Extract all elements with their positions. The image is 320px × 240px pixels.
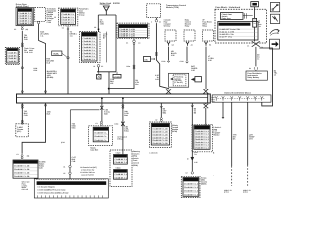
svg-text:A1: A1 — [138, 42, 140, 45]
svg-text:C1: C1 — [16, 153, 18, 156]
svg-text:(ELBW): (ELBW) — [47, 76, 54, 79]
svg-text:C8=4B BK C-L: C8=4B BK C-L — [83, 58, 96, 61]
svg-text:B+: B+ — [103, 36, 105, 39]
svg-text:Relay: Relay — [185, 24, 190, 27]
svg-text:0.35: 0.35 — [194, 161, 197, 164]
svg-text:C2=4B BK C-L 2B: C2=4B BK C-L 2B — [14, 168, 30, 171]
svg-text:Belt: Belt — [124, 114, 128, 117]
svg-text:C2=4B BK C-L: C2=4B BK C-L — [114, 176, 127, 179]
svg-text:C1=4B BK C-L: C1=4B BK C-L — [94, 132, 107, 135]
svg-text:COO #P: COO #P — [22, 188, 29, 191]
svg-text:Module (TCM): Module (TCM) — [166, 6, 179, 9]
svg-text:C305: C305 — [33, 69, 37, 72]
svg-text:C2: C2 — [63, 172, 65, 175]
svg-text:(PDM): (PDM) — [133, 164, 138, 167]
svg-text:C8: C8 — [94, 26, 96, 29]
svg-text:C2: C2 — [14, 28, 16, 31]
svg-text:Clean: Clean — [116, 167, 121, 170]
svg-text:C4=4B BK C-L 2B: C4=4B BK C-L 2B — [14, 175, 30, 178]
svg-text:1-Ch-B-Ch: 1-Ch-B-Ch — [149, 152, 157, 155]
svg-text:M Blue: M Blue — [117, 137, 123, 140]
svg-text:C-1 Dia (Am Wagon): C-1 Dia (Am Wagon) — [37, 186, 55, 189]
svg-text:C4=4B BK: C4=4B BK — [8, 60, 18, 63]
svg-text:1150: 1150 — [100, 23, 104, 26]
svg-text:C2=4B BK C-L: C2=4B BK C-L — [94, 135, 107, 138]
svg-text:C7=4B BK C-L 2: C7=4B BK C-L 2 — [195, 146, 209, 149]
svg-text:C2=4B BK C-L: C2=4B BK C-L — [114, 161, 127, 164]
svg-text:5M2: 5M2 — [163, 112, 167, 115]
svg-text:C1: C1 — [95, 122, 97, 125]
svg-text:C4=4B BK C-L 2: C4=4B BK C-L 2 — [184, 193, 198, 196]
svg-text:C4: C4 — [62, 27, 64, 30]
svg-text:A1: A1 — [191, 44, 193, 47]
svg-text:C2=4B BK C-L 2: C2=4B BK C-L 2 — [184, 186, 198, 189]
svg-text:L35: L35 — [110, 82, 113, 85]
svg-text:C4=4B BK C-L 2B: C4=4B BK C-L 2B — [119, 35, 135, 38]
svg-text:C100: C100 — [161, 60, 165, 63]
svg-text:C4=4B BK C-L: C4=4B BK C-L — [62, 22, 75, 25]
svg-text:C2: C2 — [101, 65, 103, 68]
svg-text:Data Link Connector (DLC): Data Link Connector (DLC) — [224, 92, 250, 95]
svg-text:C1: C1 — [126, 42, 128, 45]
svg-text:C3=4B BK C-L 2B: C3=4B BK C-L 2B — [14, 172, 30, 175]
svg-text:C1=4B BK C-L: C1=4B BK C-L — [114, 173, 127, 176]
svg-text:Fuse Block - Underhood: Fuse Block - Underhood — [215, 6, 240, 9]
svg-text:30 2.0 FF CH-L: 30 2.0 FF CH-L — [219, 36, 233, 39]
svg-text:ALDL: ALDL — [53, 52, 59, 55]
svg-text:C2: C2 — [185, 172, 187, 175]
svg-text:1.1: 1.1 — [257, 58, 260, 61]
svg-text:C6=4B BK C-L 2B: C6=4B BK C-L 2B — [152, 142, 168, 145]
svg-text:0.35: 0.35 — [171, 54, 175, 57]
svg-text:Window: Window — [164, 24, 171, 27]
svg-text:C5=4B BK C-L: C5=4B BK C-L — [18, 22, 31, 25]
svg-text:C1: C1 — [63, 166, 65, 169]
svg-text:C1: C1 — [93, 65, 95, 68]
svg-text:C100: C100 — [47, 21, 51, 24]
svg-text:C40x: C40x — [126, 65, 130, 68]
svg-text:G2: G2 — [172, 44, 174, 47]
svg-text:1-08: 1-08 — [155, 78, 159, 81]
svg-text:L2n: L2n — [135, 83, 138, 86]
svg-text:Case Belt: Case Belt — [90, 149, 98, 152]
svg-text:C2: C2 — [155, 118, 157, 121]
svg-text:Group: Group — [79, 13, 85, 16]
svg-text:Belt: Belt — [104, 112, 108, 115]
svg-text:)C40: )C40 — [61, 141, 65, 144]
svg-text:(MDM): (MDM) — [201, 182, 207, 185]
svg-text:(BCM): (BCM) — [172, 130, 178, 133]
svg-text:0.35: 0.35 — [191, 69, 195, 72]
svg-text:A/C: A/C — [144, 58, 148, 61]
svg-text:0.35: 0.35 — [208, 59, 212, 62]
svg-text:C1=4B BK C-L 2: C1=4B BK C-L 2 — [184, 182, 198, 185]
svg-text:(2.0L): (2.0L) — [224, 191, 229, 194]
svg-text:C40x: C40x — [114, 122, 118, 125]
svg-text:21: 21 — [247, 45, 249, 48]
svg-text:Chart: Chart — [116, 151, 121, 154]
svg-text:(3.6L): (3.6L) — [243, 191, 248, 194]
svg-text:Relay Asm: Relay Asm — [222, 17, 232, 20]
svg-text:C1=4B BK C-L 2B: C1=4B BK C-L 2B — [14, 165, 30, 168]
svg-text:C3=4B BK C-L: C3=4B BK C-L — [94, 139, 107, 142]
svg-text:C110: C110 — [180, 60, 184, 63]
svg-text:(IPC): (IPC) — [17, 130, 22, 133]
svg-text:Relay: Relay — [202, 24, 207, 27]
svg-text:C-COO CAMERA TR 4 pl w/ Case: C-COO CAMERA TR 4 pl w/ Case — [37, 189, 65, 192]
svg-text:C3=4B BK C-L 2: C3=4B BK C-L 2 — [184, 190, 198, 193]
svg-text:TELM 2: TELM 2 — [213, 134, 219, 137]
svg-text:(C-Tan 9C): (C-Tan 9C) — [174, 81, 183, 84]
svg-text:Relay Battery: Relay Battery — [247, 76, 260, 79]
svg-text:1.4: 1.4 — [274, 74, 277, 77]
svg-text:C-COO Chassis Eco (GMW) a.5 Ge: C-COO Chassis Eco (GMW) a.5 Gear — [37, 191, 68, 194]
svg-text:C1=4B BK C-L: C1=4B BK C-L — [114, 158, 127, 161]
svg-text:Loss w/ Red 5th: Loss w/ Red 5th — [80, 174, 94, 177]
svg-text:5-B1: 5-B1 — [72, 126, 76, 129]
svg-text:B1: B1 — [209, 44, 211, 47]
svg-text:CTO: CTO — [249, 138, 253, 141]
